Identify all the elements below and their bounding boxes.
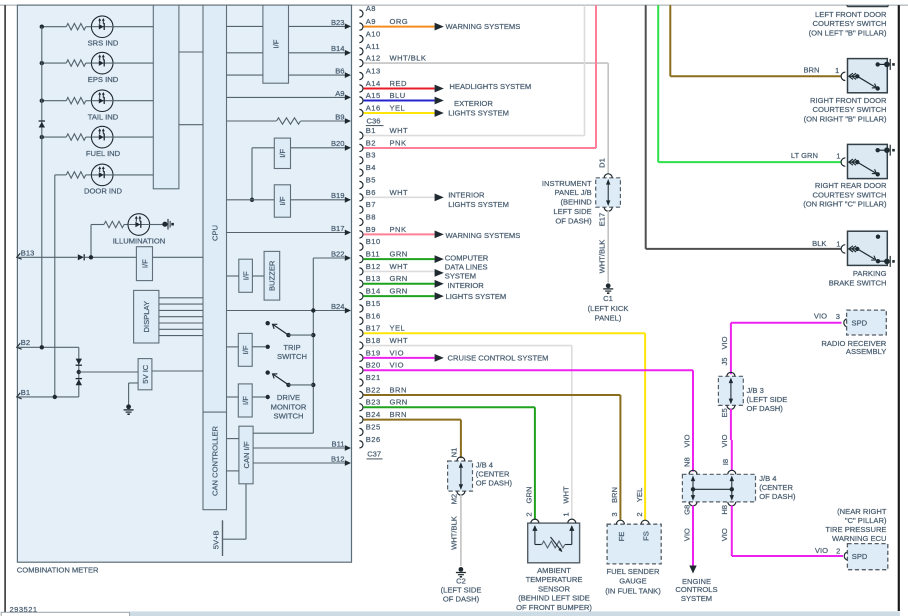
svg-text:(ON RIGHT "B" PILLAR): (ON RIGHT "B" PILLAR) [804,114,887,123]
svg-text:D1: D1 [598,158,607,168]
I/F block top [263,5,289,83]
svg-text:RIGHT REAR DOOR: RIGHT REAR DOOR [815,181,887,190]
connector pin B23 [359,404,363,411]
svg-text:LIGHTS SYSTEM: LIGHTS SYSTEM [446,292,507,301]
connector pin A11 [359,48,363,55]
svg-text:5V IC: 5V IC [141,364,150,384]
scrollbar track [130,611,900,616]
connector pin B7 [359,206,363,213]
svg-text:COURTESY SWITCH: COURTESY SWITCH [813,19,887,28]
connector pin B11 [359,256,363,263]
svg-text:B9: B9 [335,112,344,121]
svg-text:B21: B21 [366,373,381,382]
svg-text:PNK: PNK [390,225,407,234]
svg-text:FS: FS [642,531,651,541]
svg-text:C2: C2 [456,577,466,586]
svg-text:PANEL): PANEL) [595,314,622,323]
svg-text:I8: I8 [721,459,730,465]
svg-text:(IN FUEL TANK): (IN FUEL TANK) [605,587,661,596]
svg-text:G8: G8 [683,505,692,515]
svg-text:LEFT SIDE: LEFT SIDE [553,207,591,216]
svg-text:J/B 4: J/B 4 [759,474,776,483]
tire pressure warning ECU SPD box [844,552,848,560]
instrument panel J/B connector arcs [604,174,612,178]
svg-text:EPS IND: EPS IND [88,75,119,84]
svg-text:VIO: VIO [390,361,404,370]
CAN I/F block [239,426,253,484]
svg-text:J/B 4: J/B 4 [476,460,493,469]
right front door courtesy switch [841,72,845,80]
svg-text:B1: B1 [366,126,376,135]
svg-text:B8: B8 [366,212,376,221]
svg-text:RIGHT FRONT DOOR: RIGHT FRONT DOOR [810,96,887,105]
svg-text:TIRE PRESSURE: TIRE PRESSURE [825,525,886,534]
svg-text:2: 2 [836,547,840,556]
connector pin B3 [359,157,363,164]
driver to CPU wires [179,51,203,53]
frame left border [4,5,6,613]
svg-text:C1: C1 [603,294,613,303]
illumination circuit [91,224,104,226]
svg-text:BUZZER: BUZZER [268,260,277,291]
svg-text:COMBINATION METER: COMBINATION METER [17,566,99,575]
wire VIO G8 to engine controls [692,505,694,565]
connector pin B17 [359,330,363,337]
svg-text:WHT/BLK: WHT/BLK [390,54,427,63]
connector pin A10 [359,35,363,42]
buzzer wires [227,275,239,277]
node B6 internal [289,74,346,76]
svg-text:SWITCH: SWITCH [277,352,307,361]
5V IC ground branch [129,382,139,384]
CAN controller block [203,412,227,510]
svg-text:B19: B19 [331,191,345,200]
svg-text:A9: A9 [335,89,344,98]
svg-text:I/F: I/F [140,259,149,268]
svg-text:HEADLIGHTS SYSTEM: HEADLIGHTS SYSTEM [449,82,531,91]
instrument panel J/B internal arrow [607,182,609,203]
svg-text:A10: A10 [366,29,381,38]
CAN I/F to 5V+B wire [245,484,247,539]
wire VIO J/B 3 to radio receiver [730,323,732,374]
svg-text:WHT: WHT [561,486,570,504]
combination meter box [17,5,351,562]
svg-text:I/F: I/F [278,149,287,158]
svg-text:"C" PILLAR): "C" PILLAR) [845,516,887,525]
node B9 internal [301,120,346,122]
J/B 4 internal rail [693,488,732,490]
indicator driver block [153,5,179,189]
svg-text:AMBIENT: AMBIENT [537,566,571,575]
svg-text:OF DASH): OF DASH) [759,492,796,501]
svg-text:TRIP: TRIP [283,343,300,352]
svg-text:J/B 3: J/B 3 [747,386,764,395]
connector pin B5 [359,181,363,188]
svg-text:(LEFT SIDE: (LEFT SIDE [747,395,788,404]
wire B24 BRN to J/B 4 [364,419,461,421]
radio receiver assembly SPD box [844,319,848,327]
svg-text:CAN I/F: CAN I/F [242,441,251,468]
svg-text:N1: N1 [449,448,458,458]
svg-text:SYSTEM: SYSTEM [445,271,476,280]
wire B9 PNK warning systems [364,233,435,235]
node B11 internal [253,447,345,449]
svg-text:E17: E17 [598,213,607,227]
svg-text:OF DASH): OF DASH) [443,595,480,604]
wire LT GRN to right rear door switch [657,5,659,162]
wire B11 GRN computer data lines [364,258,435,260]
svg-text:SPD: SPD [852,318,868,327]
switch common vertical [312,258,314,433]
svg-text:SPD: SPD [852,552,868,561]
svg-text:VIO: VIO [683,528,692,541]
svg-text:BLU: BLU [390,91,406,100]
frame bottom line [5,612,899,614]
svg-text:DISPLAY: DISPLAY [142,301,151,333]
svg-text:ASSEMBLY: ASSEMBLY [846,347,886,356]
I/F block drive monitor switch [238,384,252,417]
svg-text:B19: B19 [366,348,381,357]
svg-text:WHT/BLK: WHT/BLK [598,240,607,274]
svg-text:INTERIOR: INTERIOR [448,281,485,290]
svg-text:BRAKE SWITCH: BRAKE SWITCH [829,278,887,287]
svg-text:B14: B14 [331,44,345,53]
svg-text:B18: B18 [366,336,381,345]
node A9 internal [227,96,346,98]
diode chain B2-B1 [78,347,80,397]
B19 row CPU wire [227,199,275,201]
connector pin A15 [359,97,363,104]
node B23 internal [289,25,346,27]
svg-text:B22: B22 [331,249,345,258]
J/B 4 box (left, center of dash) [448,461,473,491]
svg-text:1: 1 [836,152,840,161]
wire A12 WHT/BLK to instrument panel J/B [364,62,609,64]
svg-text:B15: B15 [366,299,381,308]
svg-text:B17: B17 [331,224,345,233]
svg-text:GRN: GRN [390,250,408,259]
I/F block B13 [136,247,152,281]
svg-text:B1: B1 [21,388,30,397]
svg-text:B20: B20 [331,139,345,148]
svg-text:I/F: I/F [241,396,250,405]
connector pin B14 [359,293,363,300]
svg-text:2: 2 [635,512,644,516]
svg-text:B23: B23 [366,398,381,407]
svg-text:B13: B13 [366,274,381,283]
svg-text:WARNING ECU: WARNING ECU [832,534,887,543]
svg-text:WHT: WHT [390,336,409,345]
svg-text:BRN: BRN [610,487,619,503]
trip switch [227,346,239,348]
svg-text:YEL: YEL [390,324,406,333]
svg-text:I/F: I/F [272,39,281,48]
bus A vertical [41,27,43,348]
svg-text:LT GRN: LT GRN [791,151,818,160]
connector pin B1 [359,132,363,139]
svg-text:GRN: GRN [390,274,408,283]
svg-text:YEL: YEL [635,488,644,502]
wire BRN to right front door switch [669,5,671,76]
node B20 internal [291,147,346,149]
wire B14 GRN lights system [364,295,435,297]
svg-text:YEL: YEL [390,103,406,112]
svg-text:OF DASH): OF DASH) [747,404,784,413]
diode on bus A [39,122,45,128]
svg-text:I/F: I/F [278,196,287,205]
svg-text:A14: A14 [366,79,381,88]
connector pin B2 [359,144,363,151]
svg-text:PARKING: PARKING [853,269,887,278]
node B22 internal [313,257,345,259]
svg-text:VIO: VIO [720,336,729,349]
svg-text:OF FRONT BUMPER): OF FRONT BUMPER) [516,603,592,612]
svg-text:COURTESY SWITCH: COURTESY SWITCH [813,190,887,199]
svg-text:B24: B24 [366,410,381,419]
scrollbar thumb [1,612,129,616]
connector pin B12 [359,268,363,275]
svg-text:TAIL IND: TAIL IND [88,113,119,122]
instrument panel J/B box [596,178,621,207]
resistor B9 row [227,120,277,122]
svg-text:VIO: VIO [815,546,828,555]
svg-text:B16: B16 [366,311,381,320]
svg-text:C37: C37 [367,450,381,459]
svg-text:RED: RED [390,79,407,88]
node B19 internal [291,199,346,201]
svg-text:B26: B26 [366,435,381,444]
display bus wires [159,297,203,299]
svg-text:B20: B20 [366,361,381,370]
wire B12 WHT data lines [364,270,435,272]
svg-text:1: 1 [561,512,570,516]
svg-text:SWITCH: SWITCH [274,412,304,421]
svg-text:BRN: BRN [803,65,819,74]
wire M2 WHT/BLK to ground C2 [460,495,462,566]
I/F block trip switch [238,333,252,366]
svg-text:DRIVE: DRIVE [277,393,300,402]
wire B20 VIO to J/B 4 [364,369,693,371]
connector pin B4 [359,169,363,176]
svg-text:B3: B3 [366,151,376,160]
wire B13 GRN interior lights [364,283,435,285]
svg-text:GAUGE: GAUGE [619,577,646,586]
connector pin B9 [359,231,363,238]
svg-text:A13: A13 [366,66,381,75]
connector pin B13 [359,280,363,287]
CPU to I/F wires [227,25,263,27]
svg-text:(ON LEFT "B" PILLAR): (ON LEFT "B" PILLAR) [809,28,887,37]
connector pin B20 [359,367,363,374]
bus B vertical [54,175,56,397]
buzzer [264,251,280,300]
svg-text:WHT: WHT [390,126,409,135]
wire B2 PNK [364,147,596,149]
connector pin B8 [359,218,363,225]
svg-text:E5: E5 [720,408,729,417]
svg-text:(BEHIND: (BEHIND [560,198,592,207]
wire A15 BLU exterior lights [364,100,435,102]
svg-text:B5: B5 [366,175,376,184]
svg-text:N8: N8 [683,457,692,467]
svg-text:A12: A12 [366,54,381,63]
wire B19 VIO cruise control [364,357,435,359]
indicator EPS IND [42,62,66,64]
B20 I/F branch [252,147,274,149]
svg-text:M2: M2 [449,494,458,505]
frame top line [0,4,908,6]
parking brake switch [841,245,845,253]
connector pin B6 [359,194,363,201]
svg-text:B2: B2 [21,338,30,347]
J/B 3 box [718,376,743,405]
svg-text:(CENTER: (CENTER [759,483,793,492]
connector pin B25 [359,428,363,435]
svg-text:LIGHTS SYSTEM: LIGHTS SYSTEM [448,109,509,118]
I/F block buzzer [239,259,253,292]
svg-text:SYSTEM: SYSTEM [681,594,712,603]
svg-text:J5: J5 [720,357,729,365]
wire VIO H8 to tire pressure ECU [731,505,733,556]
connector pin B21 [359,379,363,386]
svg-text:B24: B24 [331,302,345,311]
svg-text:LEFT FRONT DOOR: LEFT FRONT DOOR [815,10,887,19]
wire BLK to parking brake switch [645,5,647,249]
svg-text:WHT: WHT [390,262,409,271]
illumination feed wire [90,225,92,258]
svg-text:SRS IND: SRS IND [88,39,119,48]
5V IC block [138,359,152,390]
connector pin A13 [359,72,363,79]
svg-text:FE: FE [617,532,626,542]
svg-text:COMPUTER: COMPUTER [445,254,489,263]
wire B23 GRN to ambient sensor [364,406,535,408]
svg-text:GRN: GRN [525,487,534,504]
svg-text:CRUISE CONTROL SYSTEM: CRUISE CONTROL SYSTEM [448,354,549,363]
svg-text:B13: B13 [21,248,35,257]
svg-text:(CENTER: (CENTER [476,469,510,478]
svg-text:GRN: GRN [390,398,408,407]
svg-text:A16: A16 [366,103,381,112]
svg-text:2: 2 [525,512,534,516]
svg-text:COURTESY SWITCH: COURTESY SWITCH [813,105,887,114]
svg-text:TEMPERATURE: TEMPERATURE [526,575,583,584]
connector pin B16 [359,317,363,324]
left front door courtesy switch (cut at top) [847,5,888,7]
connector pin A8 [359,10,363,17]
svg-text:3: 3 [836,312,840,321]
wire B22 BRN to fuel sender [364,394,621,396]
svg-text:1: 1 [835,66,839,75]
svg-text:I/F: I/F [241,271,250,280]
svg-text:OF DASH): OF DASH) [476,478,513,487]
fuel sender gauge box [607,524,661,564]
svg-text:A15: A15 [366,91,381,100]
indicator DOOR IND [55,174,66,176]
ground C2 [459,567,464,572]
svg-text:DOOR IND: DOOR IND [84,187,122,196]
5V+B terminal [222,520,224,556]
display block [134,290,159,343]
svg-text:B4: B4 [366,163,376,172]
drive monitor switch [227,396,239,398]
wire A9 ORG warning systems [364,26,435,28]
svg-text:GRN: GRN [390,287,408,296]
svg-text:VIO: VIO [720,434,729,447]
svg-text:B22: B22 [366,385,381,394]
connector pin B15 [359,305,363,312]
connector pin A9 [359,23,363,30]
svg-text:B10: B10 [366,237,381,246]
svg-text:VIO: VIO [390,348,404,357]
connector pin B19 [359,354,363,361]
ambient temperature sensor box [528,523,580,563]
illumination case ground [162,222,167,227]
svg-text:BLK: BLK [812,239,826,248]
CPU block [203,5,227,412]
wire B17 YEL to fuel sender [364,332,645,334]
node B17 internal [227,232,346,234]
diode B13 [78,254,84,260]
connector pin B22 [359,391,363,398]
svg-text:B12: B12 [331,454,345,463]
svg-text:C36: C36 [367,116,381,125]
5V IC to CPU wire [152,370,203,372]
svg-text:SENSOR: SENSOR [538,584,571,593]
svg-text:5V+B: 5V+B [211,530,220,549]
indicator TAIL IND [42,100,66,102]
ground 5V IC [126,404,131,409]
indicator FUEL IND [42,136,66,138]
connector pin B26 [359,441,363,448]
svg-text:293521: 293521 [10,605,38,614]
svg-text:B2: B2 [366,138,376,147]
wire B1 WHT [364,135,585,137]
svg-text:MONITOR: MONITOR [271,402,307,411]
svg-text:PANEL J/B: PANEL J/B [555,188,592,197]
svg-text:B7: B7 [366,200,376,209]
wire diode chain to 5V IC [79,371,138,373]
wire A14 RED headlights [364,88,435,90]
svg-text:B23: B23 [331,18,345,27]
node B12 internal [253,462,345,464]
wire VIO J/B 3 to J/B 4 [730,409,732,440]
wire E17 WHT/BLK to ground [607,211,609,283]
svg-text:BRN: BRN [390,410,407,419]
wire B18 WHT to ambient sensor [364,345,572,347]
I/F block B20 [274,138,290,168]
svg-text:ORG: ORG [390,17,409,26]
svg-text:WHT: WHT [390,188,409,197]
svg-text:B11: B11 [366,250,380,259]
svg-text:B6: B6 [366,188,376,197]
svg-text:ILLUMINATION: ILLUMINATION [113,236,166,245]
svg-text:LIGHTS SYSTEM: LIGHTS SYSTEM [448,200,509,209]
svg-text:3: 3 [610,512,619,516]
svg-text:(LEFT SIDE: (LEFT SIDE [441,586,482,595]
ambient sensor thermistor [542,541,565,548]
node B14 internal [289,52,346,54]
svg-text:(ON RIGHT "C" PILLAR): (ON RIGHT "C" PILLAR) [803,200,887,209]
node B24 internal [227,310,346,312]
svg-text:EXTERIOR: EXTERIOR [454,99,493,108]
indicator SRS IND [42,26,66,28]
svg-text:A9: A9 [366,17,376,26]
svg-text:B11: B11 [332,439,345,448]
frame right border [898,5,900,611]
J/B 4 box (center of dash) [682,474,755,502]
wire B6 WHT interior lights [364,196,435,198]
